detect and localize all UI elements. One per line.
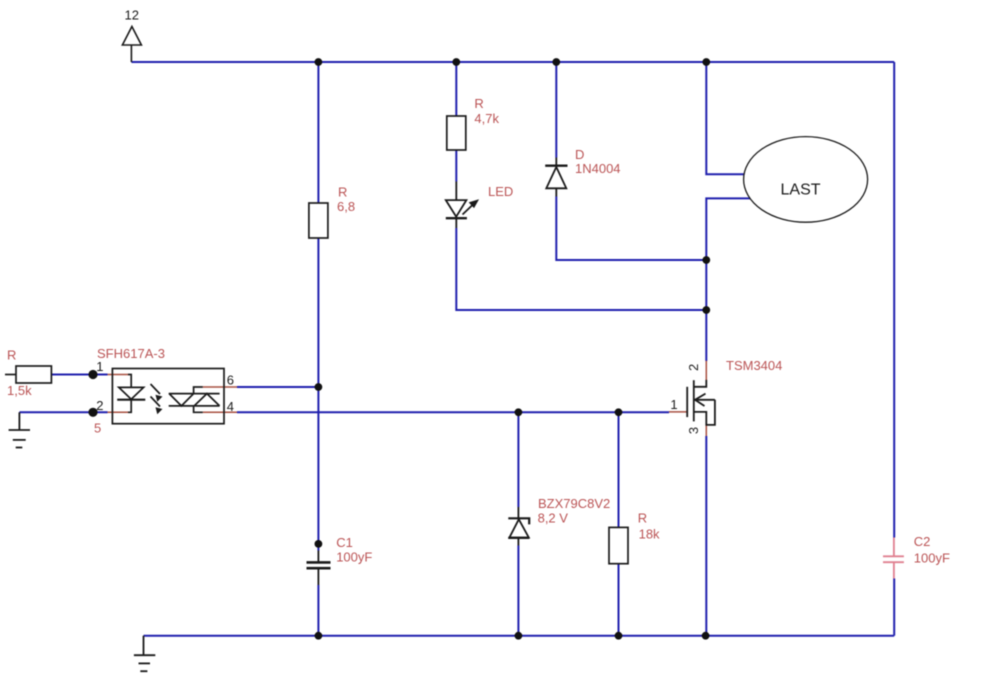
svg-text:5: 5 bbox=[94, 420, 101, 435]
svg-text:SFH617A-3: SFH617A-3 bbox=[97, 346, 165, 361]
svg-text:100yF: 100yF bbox=[914, 551, 950, 566]
svg-text:R: R bbox=[638, 510, 647, 525]
svg-text:D: D bbox=[575, 147, 584, 162]
svg-text:3: 3 bbox=[686, 427, 701, 434]
svg-text:LAST: LAST bbox=[781, 181, 821, 198]
svg-text:18k: 18k bbox=[639, 527, 660, 542]
svg-text:4,7k: 4,7k bbox=[474, 111, 499, 126]
svg-text:4: 4 bbox=[227, 399, 234, 414]
svg-text:R: R bbox=[474, 96, 483, 111]
svg-text:BZX79C8V2: BZX79C8V2 bbox=[538, 496, 610, 511]
svg-text:12: 12 bbox=[125, 8, 139, 23]
svg-text:TSM3404: TSM3404 bbox=[726, 358, 782, 373]
svg-text:6,8: 6,8 bbox=[337, 199, 355, 214]
svg-text:R: R bbox=[7, 348, 16, 363]
svg-text:2: 2 bbox=[686, 364, 701, 371]
svg-text:C2: C2 bbox=[914, 534, 931, 549]
svg-text:C1: C1 bbox=[336, 535, 353, 550]
svg-text:100yF: 100yF bbox=[336, 550, 372, 565]
svg-text:1: 1 bbox=[96, 359, 103, 374]
svg-text:2: 2 bbox=[96, 398, 103, 413]
svg-text:1,5k: 1,5k bbox=[7, 383, 32, 398]
svg-text:6: 6 bbox=[227, 372, 234, 387]
svg-text:R: R bbox=[338, 185, 347, 200]
svg-text:8,2 V: 8,2 V bbox=[538, 510, 569, 525]
svg-text:1N4004: 1N4004 bbox=[575, 161, 621, 176]
svg-text:LED: LED bbox=[488, 184, 513, 199]
svg-text:1: 1 bbox=[670, 397, 677, 412]
